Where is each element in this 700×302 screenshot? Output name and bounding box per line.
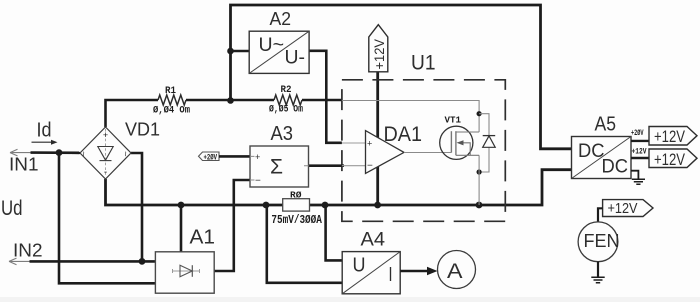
wire A5 out2	[631, 157, 649, 159]
feedback thin wire from R2 node into VT1 drain	[342, 101, 479, 133]
wire A2 input tap	[231, 50, 250, 53]
node source junction	[477, 169, 482, 174]
svg-text:-: -	[104, 167, 107, 178]
IN2 lead with arrow	[9, 258, 30, 265]
ammeter A	[438, 251, 476, 289]
wire flag to FEN	[598, 208, 603, 222]
node bus +12V	[374, 202, 381, 209]
node R1-R2 junction	[227, 97, 234, 104]
svg-text:+12V: +12V	[654, 127, 686, 146]
svg-text:+: +	[255, 152, 260, 162]
wire A3 output to DA1 minus input	[309, 164, 345, 167]
svg-text:Ud: Ud	[1, 197, 23, 220]
wire A1 output to A3 minus input	[214, 180, 250, 271]
wire bus to A4 lower input	[266, 205, 342, 283]
svg-text:U: U	[353, 255, 366, 277]
thin lead to DA1 plus	[342, 142, 366, 144]
IN1 lead with arrow	[10, 149, 31, 156]
svg-text:A4: A4	[361, 230, 386, 251]
dashed box U1	[342, 80, 505, 222]
svg-text:Ø,Ø4 Om: Ø,Ø4 Om	[153, 105, 190, 117]
wire DA1 output to gate	[404, 152, 451, 154]
svg-text:+12V: +12V	[632, 148, 647, 157]
fan FEN	[578, 222, 618, 262]
svg-text:DA1: DA1	[384, 123, 423, 146]
svg-text:−: −	[367, 161, 373, 172]
svg-text:R2: R2	[281, 85, 292, 96]
wire bottom bus from VD1 bottom to A5	[106, 170, 572, 205]
power flag +12V FEN	[603, 200, 653, 217]
wire A4 to ammeter with arrow	[400, 270, 428, 273]
svg-text:IN2: IN2	[13, 241, 43, 261]
wire bus to A1 top	[180, 205, 183, 252]
node bus-R0 right	[322, 202, 329, 209]
wire IN1 node to VD1 left vertex	[62, 152, 80, 154]
svg-text:R1: R1	[165, 86, 176, 97]
svg-text:+2ØV: +2ØV	[631, 129, 644, 138]
wire drain to flyback diode	[479, 114, 489, 172]
ground A5	[631, 171, 638, 179]
svg-text:Σ: Σ	[270, 156, 283, 179]
node A2 input	[227, 48, 234, 55]
resistor R2	[274, 95, 302, 105]
svg-text:U-: U-	[285, 47, 306, 68]
wire IN1 down to A1 lower input	[59, 153, 155, 284]
svg-text:+12V: +12V	[654, 150, 686, 169]
svg-text:IN1: IN1	[9, 155, 39, 175]
wire bus to A4 upper input	[325, 205, 342, 260]
svg-text:U~: U~	[259, 35, 285, 56]
power flag +12V out1	[649, 127, 697, 146]
resistor R1	[158, 95, 186, 105]
power flag +20V to A3	[199, 152, 220, 161]
node IN2-VD1 junction	[139, 258, 146, 265]
ground FEN	[591, 277, 604, 282]
svg-text:+12V: +12V	[608, 200, 638, 217]
wire top bus from A2-node to A5	[231, 5, 572, 149]
node IN1 junction	[56, 149, 63, 156]
svg-text:VD1: VD1	[125, 120, 160, 140]
svg-text:FEN: FEN	[584, 231, 620, 251]
wire VD1 right vertex down to IN2	[131, 153, 142, 261]
svg-text:Id: Id	[37, 120, 52, 142]
svg-text:VT1: VT1	[445, 115, 462, 126]
flyback diode	[483, 135, 496, 137]
svg-text:+12V: +12V	[371, 38, 387, 69]
wire A2 output to DA1 plus input	[309, 51, 342, 143]
svg-text:+2ØV: +2ØV	[204, 153, 218, 162]
svg-text:+: +	[367, 139, 372, 149]
svg-text:−: −	[255, 175, 261, 186]
svg-text:Ø,Ø5 Om: Ø,Ø5 Om	[269, 104, 303, 116]
op-amp DA1	[366, 131, 405, 174]
node bus VT1 source	[476, 202, 483, 209]
wire source node to bus	[478, 155, 480, 205]
wire A5 out1	[631, 140, 649, 142]
node bus-A1	[178, 202, 185, 209]
svg-text:A3: A3	[271, 123, 294, 145]
wire shunt line R1 R2	[106, 100, 159, 127]
svg-text:A: A	[447, 259, 463, 283]
svg-text:A1: A1	[190, 227, 216, 249]
svg-text:~: ~	[121, 151, 131, 156]
svg-text:+: +	[103, 130, 108, 140]
node bus-R0 left	[263, 202, 270, 209]
power flag +12V out2	[649, 149, 697, 168]
wire FEN to ground	[597, 262, 599, 277]
node drain junction	[477, 111, 482, 116]
svg-text:75mV/3ØØA: 75mV/3ØØA	[271, 213, 322, 227]
svg-text:A2: A2	[270, 8, 292, 29]
svg-text:A5: A5	[595, 114, 617, 136]
svg-text:U1: U1	[411, 52, 436, 75]
power flag +12V vertical over U1	[376, 71, 379, 205]
svg-text:I: I	[389, 264, 393, 286]
svg-text:DC: DC	[602, 157, 629, 178]
